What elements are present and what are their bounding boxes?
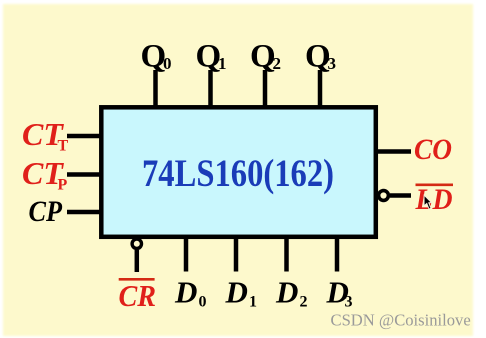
pin label D3 bbox=[326, 275, 353, 311]
wire Q0 pin bbox=[153, 70, 158, 107]
svg-text:CO: CO bbox=[414, 133, 452, 166]
pin label D0 bbox=[174, 275, 207, 311]
inverter bubble on LD pin bbox=[379, 191, 389, 201]
svg-text:1: 1 bbox=[249, 294, 257, 311]
mouse cursor bbox=[424, 195, 431, 209]
wire D2 pin bbox=[284, 239, 289, 272]
pin label Q1 bbox=[196, 39, 227, 75]
pin label Q0 bbox=[141, 39, 172, 75]
wire CO pin bbox=[378, 149, 411, 154]
wire CP pin bbox=[67, 210, 101, 215]
pin label LD (active low) bbox=[415, 183, 453, 216]
pin label Q3 bbox=[305, 39, 336, 75]
wire D0 pin bbox=[184, 239, 189, 272]
svg-text:3: 3 bbox=[328, 54, 337, 73]
svg-text:0: 0 bbox=[199, 294, 207, 311]
wire Q3 pin bbox=[318, 70, 323, 107]
inverter bubble on CR pin bbox=[132, 239, 141, 248]
svg-text:T: T bbox=[58, 138, 69, 155]
pin label D1 bbox=[225, 275, 258, 311]
svg-text:2: 2 bbox=[273, 54, 282, 73]
svg-text:D: D bbox=[275, 275, 298, 310]
wire CTT pin bbox=[67, 134, 101, 139]
svg-text:2: 2 bbox=[300, 294, 308, 311]
svg-text:D: D bbox=[225, 275, 248, 310]
svg-text:74LS160(162): 74LS160(162) bbox=[142, 152, 334, 195]
wire LD pin bbox=[390, 193, 411, 198]
wire D1 pin bbox=[234, 239, 239, 272]
svg-text:CR: CR bbox=[119, 278, 157, 313]
pin label CR (active low) bbox=[119, 278, 157, 313]
pin label Q2 bbox=[250, 39, 281, 75]
pin label D2 bbox=[275, 275, 308, 311]
svg-text:CSDN @Coisinilove: CSDN @Coisinilove bbox=[331, 311, 471, 330]
svg-text:1: 1 bbox=[218, 54, 227, 73]
wire Q2 pin bbox=[263, 70, 268, 107]
svg-text:CP: CP bbox=[29, 195, 63, 228]
wire CTP pin bbox=[67, 172, 101, 177]
svg-text:D: D bbox=[174, 275, 197, 310]
wire CR pin bbox=[135, 250, 140, 272]
svg-text:0: 0 bbox=[163, 54, 172, 73]
pin label CT_T bbox=[22, 116, 69, 155]
IC body U1 74LS160(162) bbox=[101, 107, 376, 237]
wire D3 pin bbox=[335, 239, 340, 272]
wire Q1 pin bbox=[208, 70, 213, 107]
pin label CT_P bbox=[22, 155, 68, 194]
svg-text:3: 3 bbox=[345, 294, 353, 311]
svg-text:LD: LD bbox=[415, 183, 453, 216]
svg-text:P: P bbox=[58, 177, 68, 194]
